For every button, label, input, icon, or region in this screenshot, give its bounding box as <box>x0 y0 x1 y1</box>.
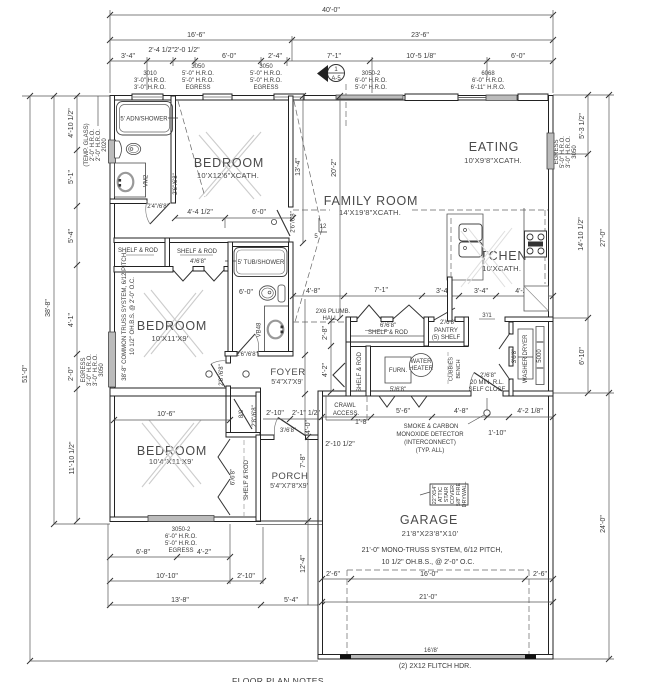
svg-text:3'/6'8": 3'/6'8" <box>280 428 296 434</box>
svg-text:6'-8": 6'-8" <box>136 549 150 556</box>
top wall <box>110 96 553 101</box>
svg-text:(5) SHELF: (5) SHELF <box>432 335 461 341</box>
svg-text:PANTRY: PANTRY <box>434 328 458 334</box>
svg-text:SHELF & ROD: SHELF & ROD <box>368 330 409 336</box>
svg-text:2'-4 1/2"2'-0 1/2": 2'-4 1/2"2'-0 1/2" <box>148 47 200 54</box>
south wall band bedroom3/hall <box>110 388 261 396</box>
svg-text:6'-0": 6'-0" <box>239 289 253 296</box>
section marker 1/A-5 <box>328 65 345 82</box>
svg-text:2X6 PLUMB.: 2X6 PLUMB. <box>316 309 351 315</box>
svg-text:10'X9'8"XCATH.: 10'X9'8"XCATH. <box>464 156 522 165</box>
dim row 1 overall 40ft <box>110 14 553 16</box>
SEC-DIMS-TOP <box>107 7 556 128</box>
svg-text:38'-8": 38'-8" <box>45 299 52 317</box>
bedroom2 door leaf/knob <box>277 210 290 236</box>
svg-text:3'-4": 3'-4" <box>474 288 488 295</box>
svg-text:23'-6": 23'-6" <box>411 32 429 39</box>
svg-text:20'-2": 20'-2" <box>331 159 338 177</box>
bifold peaks pointing up into hall <box>357 305 381 319</box>
svg-text:EGRESS: EGRESS <box>185 85 210 91</box>
foyer vdim x=305 <box>304 299 306 435</box>
svg-text:4'-8": 4'-8" <box>306 288 320 295</box>
svg-text:WATER: WATER <box>411 359 433 365</box>
svg-text:2'6"/6'8": 2'6"/6'8" <box>219 364 225 386</box>
foyer west vertical wall to porch <box>256 392 261 435</box>
svg-text:5000: 5000 <box>537 349 543 363</box>
toilet1 <box>115 141 122 158</box>
svg-text:3'-0" H.R.O.: 3'-0" H.R.O. <box>134 85 166 91</box>
svg-text:12: 12 <box>320 224 327 230</box>
svg-text:6'-0" H.R.O.: 6'-0" H.R.O. <box>165 534 197 540</box>
svg-text:2'-1" 1/2": 2'-1" 1/2" <box>292 410 321 417</box>
svg-text:2'/6'8": 2'/6'8" <box>480 373 496 379</box>
svg-text:24'-0": 24'-0" <box>600 515 607 533</box>
right outer line x=609 <box>608 95 610 659</box>
svg-text:6'-10": 6'-10" <box>579 347 586 365</box>
porch north wall with front door opening <box>256 435 274 440</box>
svg-text:6'-0": 6'-0" <box>511 53 525 60</box>
svg-text:GARAGE: GARAGE <box>400 513 458 527</box>
extension verticals <box>107 524 109 608</box>
svg-text:DRYWALL: DRYWALL <box>462 482 468 508</box>
svg-text:CRAWL: CRAWL <box>334 403 356 409</box>
svg-text:6'/6'8": 6'/6'8" <box>380 323 396 329</box>
master closet south wall segments <box>165 238 170 271</box>
svg-text:5' ADN/SHOWER: 5' ADN/SHOWER <box>120 117 168 123</box>
svg-text:1'-10": 1'-10" <box>488 430 506 437</box>
dim row 2 <box>110 39 553 41</box>
row y=557 <box>110 556 230 558</box>
svg-text:51'-0": 51'-0" <box>22 365 29 383</box>
kitchen deco X <box>461 228 512 287</box>
svg-text:CUBBIES: CUBBIES <box>449 357 455 381</box>
dim row y=602 <box>322 601 553 603</box>
svg-text:MONOXIDE DETECTOR: MONOXIDE DETECTOR <box>396 432 464 438</box>
svg-text:5'/6'8": 5'/6'8" <box>390 387 406 393</box>
svg-text:12'-4": 12'-4" <box>300 555 307 573</box>
svg-text:2'6"/6'8": 2'6"/6'8" <box>173 173 179 195</box>
svg-text:SHELF & ROD: SHELF & ROD <box>357 351 363 392</box>
right wall <box>549 96 554 660</box>
svg-text:3'/1: 3'/1 <box>482 313 492 319</box>
svg-text:5'-0" H.R.O.: 5'-0" H.R.O. <box>250 71 282 77</box>
svg-text:2020: 2020 <box>102 138 108 152</box>
svg-text:16'-6": 16'-6" <box>187 32 205 39</box>
dim row y=579 <box>322 578 553 580</box>
master bedroom east wall + door <box>226 356 231 363</box>
segmented line x=77 <box>76 96 78 521</box>
svg-text:DRYER: DRYER <box>523 334 529 356</box>
laundry bottom dims (inside garage) <box>322 416 553 418</box>
SEC-DIMS-LEFT <box>22 93 318 664</box>
svg-text:BEDROOM: BEDROOM <box>137 319 207 333</box>
svg-text:HEATER: HEATER <box>409 366 434 372</box>
svg-text:10 1/2" OH.B.S. @ 2'-0" O.C.: 10 1/2" OH.B.S. @ 2'-0" O.C. <box>130 277 136 355</box>
svg-text:5'-6": 5'-6" <box>396 408 410 415</box>
bath2 east wall <box>289 242 294 356</box>
svg-text:2'-10 1/2": 2'-10 1/2" <box>325 441 355 448</box>
SEC-DIMS-RIGHT <box>553 92 614 662</box>
svg-text:4'-2": 4'-2" <box>197 549 211 556</box>
SEC-ROOMS-NW <box>110 96 297 386</box>
svg-text:21'-0": 21'-0" <box>419 594 437 601</box>
svg-text:14'-10 1/2": 14'-10 1/2" <box>578 217 585 251</box>
bath1 east wall <box>171 96 176 203</box>
fridge nook <box>524 286 549 311</box>
svg-text:16'/8': 16'/8' <box>424 648 438 654</box>
svg-text:21'-0" MONO-TRUSS SYSTEM, 6/12: 21'-0" MONO-TRUSS SYSTEM, 6/12 PITCH, <box>362 547 503 554</box>
garage south wall <box>318 655 553 660</box>
bath2 south wall + door <box>225 352 237 357</box>
SEC-GARAGE <box>319 396 556 670</box>
svg-text:VB48: VB48 <box>257 322 263 337</box>
closet south wall y=342 <box>346 342 468 347</box>
SEC-WALLS-EXT <box>109 94 555 659</box>
svg-text:16'-0": 16'-0" <box>420 571 438 578</box>
svg-text:2'-6": 2'-6" <box>326 571 340 578</box>
small interior vdim x=331 <box>330 321 332 392</box>
bedroom3 closet bifolds (vertical, pointing left) <box>218 439 230 475</box>
attic stair <box>430 484 468 505</box>
hall dim row y=296 <box>293 295 553 297</box>
master bedroom deco X <box>144 290 203 357</box>
svg-text:2'8"/6'8": 2'8"/6'8" <box>252 405 258 427</box>
row y=605 <box>110 604 322 606</box>
family room cathedral dashed diagonals <box>294 101 322 229</box>
svg-text:5'-0" H.R.O.: 5'-0" H.R.O. <box>355 85 387 91</box>
dim row 3 <box>110 60 553 62</box>
svg-text:4'-8": 4'-8" <box>454 408 468 415</box>
bath1 south wall + door <box>110 199 147 204</box>
svg-text:5'-0" H.R.O.: 5'-0" H.R.O. <box>182 78 214 84</box>
svg-text:7'-1": 7'-1" <box>327 53 341 60</box>
svg-text:3'-0" H.R.O.: 3'-0" H.R.O. <box>134 78 166 84</box>
svg-text:4'-2 1/8": 4'-2 1/8" <box>517 408 543 415</box>
svg-text:3050: 3050 <box>572 145 578 159</box>
svg-text:2'6"/6'8": 2'6"/6'8" <box>236 352 258 358</box>
washer dryer <box>518 329 533 379</box>
svg-text:5'-0" H.R.O.: 5'-0" H.R.O. <box>250 78 282 84</box>
svg-text:6'-11" H.R.O.: 6'-11" H.R.O. <box>471 85 506 91</box>
garage north wall <box>318 391 553 396</box>
svg-text:BENCH: BENCH <box>456 359 462 378</box>
smoke detector note <box>484 410 490 416</box>
row y=581 <box>110 580 263 582</box>
svg-text:VM2: VM2 <box>144 174 150 187</box>
svg-text:3050-2: 3050-2 <box>362 71 381 77</box>
left wall <box>110 96 115 522</box>
hall closet north wall y=317 <box>346 317 357 322</box>
svg-text:6068: 6068 <box>481 71 495 77</box>
svg-text:(2) 2X12 FLITCH HDR.: (2) 2X12 FLITCH HDR. <box>399 663 471 670</box>
bedroom3 door at NE <box>234 399 252 429</box>
svg-text:6'-0" H.R.O.: 6'-0" H.R.O. <box>472 78 504 84</box>
extension lines <box>109 10 111 93</box>
38'-8" line <box>53 96 55 524</box>
51'-0" line <box>29 96 31 661</box>
slope marker 5/12 <box>318 218 320 232</box>
svg-text:20 MIN. R.L.: 20 MIN. R.L. <box>470 380 504 386</box>
svg-text:5'4"X7'X9': 5'4"X7'X9' <box>271 379 302 386</box>
svg-text:40'-0": 40'-0" <box>322 7 340 14</box>
closet east / porch west wall <box>256 435 261 522</box>
svg-text:2'-6": 2'-6" <box>533 571 547 578</box>
svg-text:7'-1": 7'-1" <box>374 287 388 294</box>
svg-text:(TYP. ALL): (TYP. ALL) <box>416 448 445 454</box>
svg-text:SELF CLOSE: SELF CLOSE <box>468 387 505 393</box>
svg-text:FOYER: FOYER <box>270 367 305 378</box>
bedroom2 right wall <box>289 96 294 207</box>
linen door <box>333 363 345 387</box>
SEC-DIMS-BOTTOM <box>107 440 325 682</box>
bedroom3 east wall upper + door <box>226 396 231 436</box>
svg-text:2'-4": 2'-4" <box>268 53 282 60</box>
svg-text:4'-2": 4'-2" <box>322 363 329 377</box>
svg-text:FAMILY ROOM: FAMILY ROOM <box>324 194 418 208</box>
SEC-KITCHEN <box>319 208 556 437</box>
interior vertical dims <box>302 96 304 243</box>
svg-text:EATING: EATING <box>469 140 519 154</box>
furnace / water heater <box>385 357 411 383</box>
hall smoke detectors <box>206 371 212 377</box>
furnace closet bifolds opening to garage <box>379 396 395 407</box>
svg-text:5'-4": 5'-4" <box>68 229 75 243</box>
svg-text:14'X19'8"XCATH.: 14'X19'8"XCATH. <box>339 208 401 217</box>
bedroom2 dashed ceiling line <box>178 101 205 197</box>
svg-text:10'-5 1/8": 10'-5 1/8" <box>406 53 436 60</box>
svg-text:6'-0": 6'-0" <box>252 209 266 216</box>
svg-text:3050: 3050 <box>99 363 105 377</box>
svg-text:10'-6": 10'-6" <box>157 411 175 418</box>
tub/shower master <box>232 242 289 247</box>
svg-text:2'4"/6'8": 2'4"/6'8" <box>147 204 169 210</box>
svg-text:4'-1": 4'-1" <box>68 313 75 327</box>
svg-text:11'-10 1/2": 11'-10 1/2" <box>69 441 76 474</box>
svg-text:2'-10": 2'-10" <box>237 573 255 580</box>
linen closet left of furnace <box>346 342 351 396</box>
svg-text:27'-0": 27'-0" <box>600 229 607 247</box>
bedroom3 closet top wall <box>226 433 260 438</box>
svg-text:2'6"/6'8": 2'6"/6'8" <box>291 211 297 233</box>
svg-text:38'-8" COMMON TRUSS SYSTEM, 6/: 38'-8" COMMON TRUSS SYSTEM, 6/12 PITCH, <box>122 251 128 381</box>
svg-text:7'-8": 7'-8" <box>300 454 307 468</box>
svg-text:FLOOR PLAN NOTES: FLOOR PLAN NOTES <box>232 676 324 682</box>
garage west wall <box>318 391 323 659</box>
svg-text:5'-0" H.R.O.: 5'-0" H.R.O. <box>165 541 197 547</box>
svg-text:SHELF & ROD: SHELF & ROD <box>177 249 218 255</box>
stove <box>525 231 547 257</box>
porch slab bottom edge <box>256 520 322 522</box>
svg-text:EGRESS: EGRESS <box>168 548 193 554</box>
svg-text:10'X11'X9': 10'X11'X9' <box>151 334 188 343</box>
svg-text:3'6'8": 3'6'8" <box>512 349 518 363</box>
svg-text:FURN.: FURN. <box>389 368 408 374</box>
svg-text:13'-4": 13'-4" <box>295 158 302 176</box>
svg-text:EGRESS: EGRESS <box>253 85 278 91</box>
svg-text:BEDROOM: BEDROOM <box>194 156 264 170</box>
shower <box>117 102 173 136</box>
svg-text:5'-1": 5'-1" <box>68 170 75 184</box>
svg-text:PORCH: PORCH <box>272 471 309 482</box>
bath2 west wall <box>228 242 233 352</box>
bath2 vanity <box>265 306 290 352</box>
svg-text:2'-10": 2'-10" <box>266 410 284 417</box>
svg-text:4'-4 1/2": 4'-4 1/2" <box>187 209 213 216</box>
svg-text:(INTERCONNECT): (INTERCONNECT) <box>404 440 456 446</box>
svg-text:13'-8": 13'-8" <box>171 597 189 604</box>
svg-text:3050-2: 3050-2 <box>172 527 191 533</box>
SEC-TEXTS <box>147 156 512 287</box>
front door leaf + arc <box>278 418 306 437</box>
svg-text:5'-4": 5'-4" <box>284 597 298 604</box>
svg-text:SHELF & ROD: SHELF & ROD <box>244 459 250 500</box>
svg-text:10'X12'6"XCATH.: 10'X12'6"XCATH. <box>197 171 259 180</box>
laundry room <box>509 322 513 334</box>
right wall counter <box>523 208 525 286</box>
bedroom3 south wall <box>110 517 259 522</box>
svg-text:WASHER: WASHER <box>523 356 529 383</box>
top wall windows <box>132 94 163 100</box>
front area dims <box>263 418 322 420</box>
svg-text:21'8"X23'8"X10': 21'8"X23'8"X10' <box>402 529 459 538</box>
svg-text:6'/6'8": 6'/6'8" <box>231 469 237 485</box>
garage door dashed track lines <box>347 569 529 571</box>
svg-text:4'/6'8": 4'/6'8" <box>190 259 206 265</box>
island sink <box>459 224 482 241</box>
svg-text:3050: 3050 <box>191 64 205 70</box>
svg-text:10'-10": 10'-10" <box>156 573 178 580</box>
svg-text:2'-0": 2'-0" <box>68 367 75 381</box>
bedroom2 dim row <box>175 217 293 219</box>
right inner segmented line x=588 <box>553 94 614 96</box>
vanity1 <box>115 163 146 197</box>
svg-text:6'-0": 6'-0" <box>222 53 236 60</box>
svg-text:2'-8": 2'-8" <box>322 326 329 340</box>
island counter <box>447 214 483 280</box>
svg-text:8/0: 8/0 <box>239 409 245 418</box>
svg-text:ACCESS.: ACCESS. <box>333 411 360 417</box>
svg-text:4'-10 1/2": 4'-10 1/2" <box>68 108 75 138</box>
kitchen SW corner wall <box>448 277 453 321</box>
svg-text:10 1/2" OH.B.S., @ 2'-0" O.C.: 10 1/2" OH.B.S., @ 2'-0" O.C. <box>382 559 475 566</box>
master closet north wall <box>114 238 289 243</box>
SEC-ROOMS-CENTER <box>111 93 556 605</box>
bifold doors closet (pointing down) <box>173 270 193 281</box>
laundry-garage door <box>471 390 503 397</box>
svg-text:3050: 3050 <box>259 64 273 70</box>
svg-text:5' TUB/SHOWER: 5' TUB/SHOWER <box>238 260 285 266</box>
svg-text:5'4"X7'8"X9': 5'4"X7'8"X9' <box>270 483 308 490</box>
svg-text:SMOKE & CARBON: SMOKE & CARBON <box>404 424 459 430</box>
svg-text:3010: 3010 <box>143 71 157 77</box>
bedroom2 deco X <box>199 132 261 199</box>
svg-text:5'-0" H.R.O.: 5'-0" H.R.O. <box>182 71 214 77</box>
svg-text:6'-0" H.R.O.: 6'-0" H.R.O. <box>355 78 387 84</box>
svg-text:A-5: A-5 <box>331 76 341 82</box>
svg-text:3'-4": 3'-4" <box>121 53 135 60</box>
svg-text:4'-0": 4'-0" <box>305 420 312 434</box>
svg-text:5'-3 1/2": 5'-3 1/2" <box>579 113 586 139</box>
